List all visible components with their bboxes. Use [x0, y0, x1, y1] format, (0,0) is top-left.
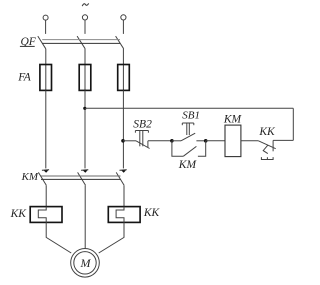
- terminal L3: [121, 15, 126, 20]
- wire phase1 KM to heater: [45, 185, 47, 206]
- contactor coil KM: [225, 125, 241, 157]
- wire phase3 heater to motor: [99, 222, 124, 253]
- contactor KM pole1 fixed arrow: [42, 169, 49, 172]
- svg-text:SB1: SB1: [182, 110, 200, 122]
- wire phase2 QF to fuse: [84, 49, 86, 65]
- svg-text:FA: FA: [17, 72, 32, 84]
- node control left tap on phase3: [121, 139, 125, 143]
- node SB1 left: [170, 139, 174, 143]
- wire L1 drop: [45, 20, 47, 34]
- terminal L1: [43, 15, 48, 20]
- contactor KM auxiliary contact: [172, 141, 184, 156]
- breaker QF pole 2 blade: [77, 36, 85, 49]
- stop button SB2: [123, 140, 136, 142]
- svg-text:KM: KM: [223, 114, 243, 126]
- wire control top rail: [85, 107, 293, 109]
- svg-text:KM: KM: [21, 171, 39, 183]
- wire phase1 heater to motor: [46, 222, 71, 253]
- thermal relay KK heater 1: [30, 207, 62, 223]
- contactor KM pole3 fixed arrow: [120, 169, 127, 172]
- wire SB2 to SB1: [148, 140, 172, 142]
- breaker QF pole 1 blade: [38, 36, 46, 49]
- node control tap on phase2: [83, 107, 86, 110]
- contactor KM linkage lines: [41, 175, 121, 177]
- fuse FA1: [45, 65, 47, 91]
- contactor KM pole2 blade: [78, 172, 86, 185]
- fuse FA2: [84, 65, 86, 91]
- thermal relay KK heater 2: [108, 207, 140, 223]
- AC source tilde: [82, 3, 89, 6]
- contactor KM pole2 fixed arrow: [81, 169, 88, 172]
- wire coil to KK contact: [241, 140, 259, 142]
- breaker QF linkage lines: [42, 39, 120, 41]
- wire phase1 QF to fuse: [45, 49, 47, 65]
- terminal L2: [82, 15, 87, 20]
- wire control right rail: [292, 108, 294, 140]
- svg-text:KM: KM: [178, 159, 198, 171]
- wire KK contact to right rail: [273, 139, 293, 141]
- motor M: [71, 248, 100, 277]
- wire phase2 fuse to KM contact: [84, 90, 86, 168]
- wire phase3 KM to heater: [123, 185, 125, 206]
- breaker QF pole 3 blade: [116, 36, 124, 49]
- contactor KM pole1 blade: [38, 172, 46, 185]
- wire SB1 to coil: [206, 140, 225, 142]
- contactor KM pole3 blade: [116, 172, 124, 185]
- node SB1 right: [204, 139, 208, 143]
- start button SB1: [172, 140, 181, 142]
- svg-text:KK: KK: [143, 207, 161, 219]
- wire phase3 QF to fuse: [122, 49, 124, 65]
- svg-text:KK: KK: [258, 126, 276, 138]
- wire L3 drop: [122, 20, 124, 34]
- svg-text:KK: KK: [10, 208, 28, 220]
- svg-text:M: M: [80, 256, 92, 270]
- wire phase2 KM to motor: [84, 185, 86, 248]
- fuse FA3: [122, 65, 124, 91]
- svg-text:SB2: SB2: [133, 119, 152, 131]
- wire phase3 fuse to KM contact: [122, 90, 124, 168]
- wire phase1 fuse to KM contact: [45, 90, 47, 168]
- wire L2 drop: [84, 20, 86, 34]
- thermal relay KK NC contact: [258, 141, 275, 149]
